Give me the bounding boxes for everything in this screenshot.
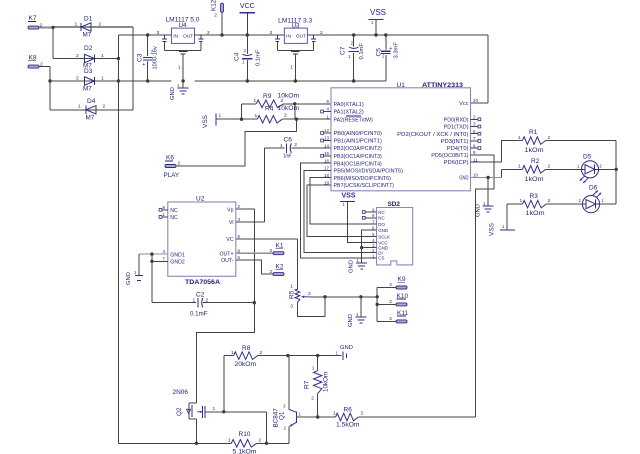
U3 output bypass tab [311, 35, 316, 51]
transistor Q2 2N06 [173, 389, 224, 443]
svg-text:1: 1 [290, 65, 293, 71]
svg-text:IN: IN [286, 34, 291, 40]
U4 input bypass tab [162, 35, 167, 51]
wire D4 line [50, 109, 133, 111]
svg-text:GND2: GND2 [170, 260, 185, 266]
connector K11 [389, 310, 408, 323]
svg-text:2: 2 [389, 299, 392, 305]
svg-text:2: 2 [389, 282, 392, 288]
wire C6 left [264, 148, 283, 222]
svg-text:M7: M7 [83, 32, 92, 39]
junction C7 bottom [352, 79, 355, 82]
junction D5/vertical [615, 168, 618, 171]
svg-text:PD2(CKOUT / XCK / INT0): PD2(CKOUT / XCK / INT0) [397, 132, 469, 138]
power VSS at R3 [489, 222, 516, 236]
SD2 pin 2 stub [365, 252, 376, 254]
svg-text:NC: NC [378, 216, 384, 221]
svg-text:1: 1 [518, 135, 521, 141]
wire GND1 down to ground [138, 254, 140, 275]
svg-text:Vp: Vp [227, 207, 233, 213]
svg-text:1: 1 [518, 164, 521, 170]
svg-text:GND: GND [126, 272, 132, 285]
U1 pin 2 stub [471, 118, 481, 121]
svg-text:PD1(TXD): PD1(TXD) [444, 125, 469, 131]
svg-text:1: 1 [193, 298, 196, 304]
SD2 pin 9 stub [362, 211, 376, 214]
svg-text:C7: C7 [340, 46, 347, 55]
junction Q2 gate/R8 [222, 410, 225, 413]
svg-text:1: 1 [333, 411, 336, 417]
svg-text:1: 1 [75, 22, 78, 28]
regulator U3 LM1117 3.3 [270, 18, 324, 44]
svg-text:1: 1 [290, 284, 293, 290]
svg-text:R7: R7 [304, 380, 311, 389]
svg-text:1mF: 1mF [283, 154, 292, 160]
wire PB7 to SD card SCLK [307, 185, 365, 236]
svg-text:K7: K7 [29, 15, 37, 22]
svg-text:U2: U2 [196, 196, 205, 203]
junction K8/D3 [48, 79, 51, 82]
junction U4 ground/rail [181, 79, 184, 82]
wire Vp down to C2 node [253, 209, 255, 303]
connector K8 [28, 55, 43, 69]
wire PD5 to R6 [471, 155, 495, 417]
svg-text:R2: R2 [531, 158, 540, 165]
svg-text:3: 3 [290, 304, 293, 310]
svg-text:C2: C2 [196, 292, 205, 299]
U1 pin 6 stub [471, 132, 481, 135]
wire R8 left down to Q2 gate [223, 356, 225, 412]
connector K10 [389, 293, 408, 306]
svg-text:18: 18 [324, 173, 330, 178]
svg-text:2: 2 [361, 411, 364, 417]
U1 pin 3 stub [471, 125, 481, 128]
svg-text:OUT-: OUT- [221, 258, 234, 264]
svg-text:PD0(RXD): PD0(RXD) [444, 117, 469, 123]
wire U4 ground pin down [182, 54, 184, 81]
junction C4 bottom [246, 79, 249, 82]
regulator U4 LM1117 5.0 [157, 17, 211, 44]
resistor R3 [520, 193, 583, 217]
wire K7 to D1 line [39, 26, 133, 29]
svg-text:1.5kOm: 1.5kOm [336, 422, 360, 429]
svg-text:Q1: Q1 [279, 411, 286, 420]
wire Vp node down to Q2 drain [196, 303, 254, 403]
svg-text:1: 1 [280, 143, 283, 149]
wire K8 to left vertical [39, 66, 50, 68]
junction R7/base [316, 415, 319, 418]
connector K9 [389, 276, 407, 289]
svg-text:1kOm: 1kOm [526, 210, 545, 217]
svg-text:U3: U3 [292, 23, 301, 30]
wire R9 left vertical [241, 104, 243, 119]
wire K9-K11 manifold [376, 288, 378, 322]
svg-text:ATTINY2313: ATTINY2313 [422, 82, 463, 89]
wire gate net right [224, 411, 267, 413]
svg-text:M7: M7 [86, 115, 95, 122]
wire R8 node to gnd [288, 355, 342, 357]
resistor R6 [318, 407, 476, 429]
ground symbol below U1 [476, 178, 494, 218]
wire wiper gnd down [360, 297, 362, 317]
wire K8 vertical down to D4 line [49, 67, 51, 110]
svg-text:VC: VC [226, 237, 233, 243]
resistor R9 [242, 93, 332, 108]
svg-text:2: 2 [260, 350, 263, 356]
resistor R1 [518, 129, 616, 154]
svg-text:12: 12 [324, 128, 330, 133]
junction C2/Vp node [253, 301, 256, 304]
svg-text:SD2: SD2 [388, 201, 401, 208]
wire R5 bottom loop [297, 297, 325, 317]
resistor R2 [518, 158, 581, 183]
svg-text:0.1mF: 0.1mF [359, 43, 365, 60]
connector K12 [211, 0, 224, 19]
ground symbol battery style [336, 345, 353, 360]
svg-text:2N06: 2N06 [173, 389, 189, 396]
svg-text:NC: NC [170, 208, 178, 214]
junction R5 loop/wiper [323, 295, 326, 298]
svg-text:2: 2 [548, 198, 551, 204]
wire R9 to PA2 vertical [295, 104, 297, 132]
svg-text:GND: GND [348, 314, 354, 327]
svg-text:DI: DI [378, 250, 382, 255]
svg-text:D5: D5 [583, 154, 592, 161]
svg-text:1: 1 [78, 104, 81, 110]
svg-text:PA2(RESET/dW): PA2(RESET/dW) [334, 117, 374, 123]
capacitor C2 [152, 292, 254, 318]
wire K7 junction down to D2 [52, 27, 54, 59]
wire D1-D4 right vertical [132, 27, 134, 110]
svg-text:17: 17 [324, 166, 330, 171]
resistor R7 [304, 356, 330, 417]
svg-text:1: 1 [520, 198, 523, 204]
wire U2 Vp right [236, 208, 255, 210]
wire U3 tab bottom [277, 50, 313, 52]
junction K12/rail [220, 33, 223, 36]
svg-text:2: 2 [178, 161, 181, 167]
wire K12 down to rail [221, 12, 223, 35]
diode D4 [78, 98, 106, 122]
svg-text:R9: R9 [263, 93, 272, 100]
svg-text:PD6(ICP): PD6(ICP) [444, 160, 469, 166]
SD2 pin 5 stub [365, 236, 376, 238]
wire VCC down to rail [246, 16, 248, 35]
svg-text:PB4(OC1B/PCINT4): PB4(OC1B/PCINT4) [334, 161, 383, 167]
wire U4 tab bottom [165, 50, 201, 52]
junction VSS/rail [374, 33, 377, 36]
svg-text:PD3(INT1): PD3(INT1) [441, 139, 469, 145]
svg-text:PB0(AIN0/PCINT0): PB0(AIN0/PCINT0) [334, 131, 383, 137]
wire U2 OUT+ to K1 [236, 252, 273, 254]
junction R7 top [316, 354, 319, 357]
wire U3 out to VSS rail [307, 34, 488, 36]
wire main left vertical [117, 35, 119, 443]
U2 pin 9 stub [159, 208, 168, 211]
svg-text:PB7(UCSK/SCL/PCINT7): PB7(UCSK/SCL/PCINT7) [334, 183, 395, 189]
wire VSS to SD2 VCC pin [348, 201, 377, 242]
junction manifold/K10 [376, 303, 379, 306]
svg-text:1: 1 [178, 65, 181, 71]
svg-text:DO: DO [378, 222, 385, 227]
SD2 pin 8 stub [362, 216, 376, 219]
wire PD6 to R1 [471, 141, 523, 163]
diode D3 [76, 68, 104, 93]
svg-text:1: 1 [213, 406, 216, 412]
svg-text:1000-16v: 1000-16v [153, 46, 159, 70]
U3 ground pin plates [290, 52, 299, 71]
svg-text:2: 2 [214, 13, 217, 19]
svg-text:5.1kOm: 5.1kOm [233, 449, 257, 454]
svg-text:IN: IN [173, 34, 178, 40]
svg-text:U1: U1 [397, 82, 406, 89]
ground symbol at U2 [126, 270, 143, 285]
wire U2 GND1 [139, 253, 168, 255]
svg-text:1kOm: 1kOm [525, 176, 544, 183]
svg-text:2: 2 [294, 142, 297, 148]
wire right vertical R1-D6 [615, 141, 617, 205]
svg-text:D2: D2 [84, 45, 93, 52]
svg-text:2: 2 [389, 316, 392, 322]
junction K7/D2 [51, 26, 54, 29]
svg-text:PB2(OC0A/PCINT2): PB2(OC0A/PCINT2) [334, 146, 383, 152]
wire VSS down to rail [375, 19, 377, 35]
svg-text:M7: M7 [83, 86, 92, 93]
svg-text:11: 11 [473, 157, 478, 162]
wire D5 to right vertical [599, 168, 617, 170]
SD2 pin 7 stub [365, 223, 376, 225]
svg-text:PA1(XTAL2): PA1(XTAL2) [334, 110, 364, 116]
svg-text:VSS: VSS [342, 193, 356, 200]
wire U2 VC right [236, 239, 298, 289]
connector K7 [28, 15, 43, 29]
svg-text:0.1mF: 0.1mF [256, 49, 262, 66]
svg-text:3: 3 [157, 30, 160, 36]
junction SD2 gnd [360, 246, 363, 249]
svg-text:GND: GND [349, 260, 355, 273]
svg-text:1: 1 [254, 98, 257, 104]
wire SD2 gnd down [361, 248, 363, 263]
connector K6 [165, 155, 181, 168]
junction GND1/GND2 tie [150, 252, 153, 255]
svg-text:PB6(MISO/DO/PCINT6): PB6(MISO/DO/PCINT6) [334, 176, 392, 182]
wire U3 ground pin down [294, 54, 296, 81]
diode D1 [75, 16, 102, 39]
svg-text:2: 2 [548, 164, 551, 170]
diode D2 [76, 45, 104, 70]
svg-text:GND: GND [170, 87, 176, 100]
svg-text:1: 1 [228, 438, 231, 444]
wire to K11 [377, 320, 396, 322]
svg-text:D3: D3 [84, 68, 93, 75]
U1 pin 12 stub [321, 132, 331, 135]
svg-text:0.1mF: 0.1mF [190, 311, 208, 317]
potentiometer R5 [289, 239, 312, 310]
svg-text:1kOm: 1kOm [525, 147, 544, 154]
wire R3 to VSS [507, 204, 522, 230]
svg-text:15: 15 [324, 151, 330, 156]
svg-text:+: + [389, 46, 392, 52]
svg-text:VSS: VSS [370, 8, 386, 17]
svg-text:D4: D4 [87, 98, 96, 105]
svg-text:2: 2 [308, 291, 311, 297]
wire D6 to right vertical [600, 203, 617, 205]
svg-text:2: 2 [259, 438, 262, 444]
ground symbol below U4 [170, 81, 189, 100]
svg-text:10kOm: 10kOm [278, 105, 300, 112]
junction VSS-R4/R9 [240, 118, 243, 121]
IC U1 ATTINY2313 [324, 82, 479, 191]
capacitor C7 [340, 35, 366, 81]
svg-text:1: 1 [101, 76, 104, 82]
U1 pin 8 stub [471, 147, 481, 150]
wire to K9 [377, 287, 396, 289]
svg-text:GND: GND [476, 204, 482, 217]
junction U3 ground/rail [294, 79, 297, 82]
svg-text:Vcc: Vcc [459, 101, 469, 107]
svg-text:R8: R8 [242, 345, 251, 352]
wire SD2 GND pins [362, 230, 377, 248]
wire D2 line [53, 58, 118, 60]
wire U2 OUT- to K2 [236, 260, 273, 274]
U4 output bypass tab [198, 35, 203, 51]
svg-text:OUT+: OUT+ [220, 251, 234, 257]
svg-text:R1: R1 [529, 129, 538, 136]
wire U2 Vi right [236, 221, 265, 223]
U1 pin 13 stub [321, 139, 331, 142]
junction C3 bottom [146, 79, 149, 82]
label VSS under U1 [342, 193, 356, 200]
power VSS above SD2 [340, 201, 355, 207]
capacitor C6 [280, 137, 331, 160]
wire top rail to C3 [118, 34, 171, 36]
svg-text:20kOm: 20kOm [235, 361, 257, 368]
svg-text:VCC: VCC [240, 3, 255, 10]
svg-text:20: 20 [473, 98, 479, 103]
junction GND2 [150, 260, 153, 263]
resistor R10 [228, 431, 267, 454]
junction R8-2/Q1 collector [286, 354, 289, 357]
svg-text:2: 2 [99, 22, 102, 28]
wire PB4 to SD card CS [300, 163, 365, 258]
junction manifold/wiper [376, 295, 379, 298]
wire GND pin to R2 [501, 169, 522, 177]
transistor Q1 BC847 [273, 356, 318, 444]
wire R10 to Q1 emitter [267, 442, 290, 444]
svg-text:PA0(XTAL1): PA0(XTAL1) [334, 102, 364, 108]
svg-text:2: 2 [284, 113, 287, 119]
svg-text:16: 16 [324, 158, 330, 163]
junction GND pin [486, 176, 489, 179]
svg-text:NC: NC [170, 215, 178, 221]
svg-text:2: 2 [103, 104, 106, 110]
wire U2 GND2 [152, 260, 168, 262]
svg-text:PB5(MOSI/DI/SDA/PCINT5): PB5(MOSI/DI/SDA/PCINT5) [334, 169, 404, 175]
LED D6 [579, 185, 605, 213]
svg-text:2: 2 [281, 98, 284, 104]
wire rail corner to Vcc pin [471, 35, 489, 103]
svg-text:U4: U4 [179, 22, 188, 29]
U1 pin 7 stub [471, 140, 481, 143]
svg-text:PB3(OC1A/PCINT3): PB3(OC1A/PCINT3) [334, 154, 383, 160]
ground symbol at volume [348, 312, 366, 327]
svg-text:PD4(T0): PD4(T0) [447, 146, 469, 152]
svg-text:2: 2 [270, 269, 273, 275]
svg-text:C4: C4 [234, 52, 241, 61]
svg-text:2: 2 [76, 53, 79, 59]
U1 pin 15 stub [321, 154, 331, 157]
svg-text:TDA7056A: TDA7056A [185, 279, 220, 286]
svg-text:K12: K12 [211, 0, 218, 11]
junction C5 top [384, 33, 387, 36]
svg-text:1: 1 [312, 366, 315, 372]
svg-text:1: 1 [231, 350, 234, 356]
SD card socket SD2 [372, 201, 413, 265]
svg-text:OUT: OUT [183, 34, 193, 40]
U3 input bypass tab [275, 35, 280, 51]
wire PB5 to SD card DI [304, 171, 365, 253]
SD2 pin 1 stub [365, 257, 376, 259]
U2 pin 1 stub [159, 216, 168, 219]
svg-text:SCLK: SCLK [378, 234, 390, 239]
svg-text:GND: GND [459, 176, 469, 182]
wire R5 wiper [309, 296, 377, 298]
svg-text:C6: C6 [284, 137, 293, 144]
ground symbol below SD2 [349, 258, 368, 273]
junction D3/left vertical [117, 79, 120, 82]
svg-text:R3: R3 [530, 193, 539, 200]
wire D3 line / ground rail [50, 80, 386, 82]
wire to K10 [377, 303, 396, 305]
svg-text:NC: NC [378, 210, 384, 215]
power VSS top [369, 8, 387, 25]
junction R4/PLAY tie [295, 118, 298, 121]
svg-text:19: 19 [324, 180, 330, 185]
resistor R8 [224, 345, 288, 368]
connector K1 [270, 243, 285, 255]
svg-text:1: 1 [219, 113, 222, 119]
svg-text:14: 14 [324, 143, 330, 148]
svg-text:GND: GND [340, 345, 353, 351]
junction R10/gate net [265, 442, 268, 445]
svg-text:K6: K6 [166, 155, 174, 162]
wire bottom rail left [118, 442, 231, 444]
svg-text:1: 1 [255, 113, 258, 119]
svg-text:PLAY: PLAY [164, 172, 180, 179]
svg-text:2: 2 [76, 76, 79, 82]
svg-text:VSS: VSS [489, 222, 496, 236]
wire GND tie down to C2 [151, 254, 153, 303]
junction Q2 source/rail [195, 442, 198, 445]
wire PLAY net [177, 131, 297, 166]
capacitor C4 [234, 35, 262, 81]
capacitor C5 [376, 35, 400, 81]
svg-text:OUT: OUT [296, 34, 306, 40]
svg-text:PD5(OC0B/T1): PD5(OC0B/T1) [431, 153, 468, 159]
svg-text:CS: CS [378, 256, 384, 261]
svg-text:D6: D6 [589, 185, 598, 192]
svg-text:Q2: Q2 [176, 407, 183, 416]
svg-text:R10: R10 [239, 431, 251, 438]
wire PB6 to SD card DO [310, 178, 365, 224]
power VSS left of R4 [202, 113, 222, 129]
IC U2 TDA7056A [162, 196, 240, 287]
junction C7 top [352, 33, 355, 36]
power VCC [240, 3, 256, 16]
label PLAY [164, 172, 180, 179]
svg-text:2: 2 [206, 298, 209, 304]
wire GND pin right [471, 177, 502, 179]
